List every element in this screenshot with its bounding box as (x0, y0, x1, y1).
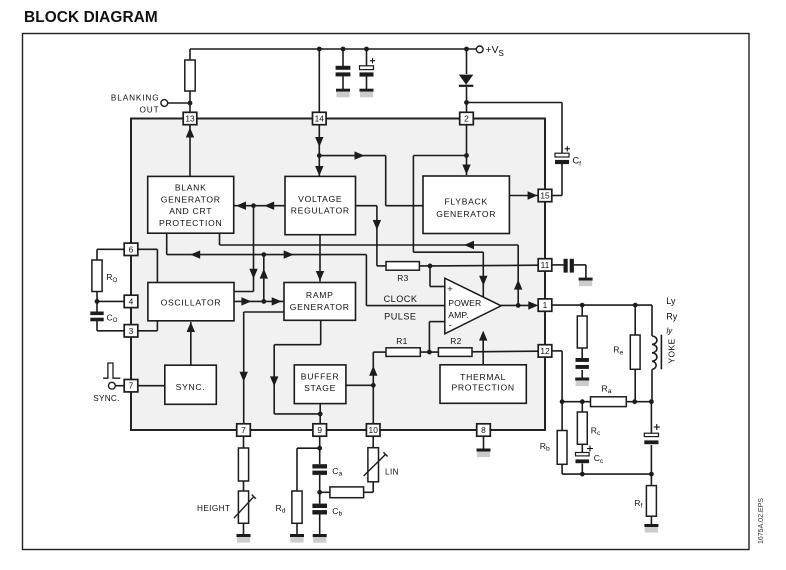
svg-text:6: 6 (129, 244, 134, 254)
arrow thermal into amp (479, 331, 487, 341)
svg-text:7: 7 (129, 381, 134, 391)
wire damper branch (581, 305, 583, 316)
wire oscillator output to ramp (234, 300, 284, 302)
wire pin 7 to sync block (138, 385, 165, 387)
capacitor supply C1 (336, 66, 351, 70)
pin 7 bottom (237, 424, 251, 436)
svg-text:STAGE: STAGE (304, 383, 336, 393)
svg-text:PROTECTION: PROTECTION (451, 382, 514, 392)
svg-text:R1: R1 (396, 336, 408, 346)
wire pin 6 to pin 3 link (138, 248, 158, 250)
arrow regulator rail right (355, 151, 365, 159)
node R3 junction (428, 264, 433, 269)
svg-text:Ry: Ry (666, 311, 677, 321)
svg-text:FLYBACK: FLYBACK (444, 196, 487, 206)
wire cap C1 stub (342, 49, 344, 66)
svg-text:YOKE: YOKE (667, 338, 677, 363)
arrow into blank generator 1 (236, 202, 246, 210)
yoke inductor Ly (652, 336, 657, 369)
wire cap to ground (574, 264, 586, 266)
svg-text:POWER: POWER (448, 298, 481, 308)
node Ro-Co junction (95, 299, 100, 304)
capacitor Co (90, 312, 103, 316)
wire blanking resistor bottom to pin 13 (189, 91, 191, 113)
node line B junction (261, 252, 266, 257)
block ramp generator (284, 283, 356, 321)
svg-text:7: 7 (241, 425, 246, 435)
wire Cf to pin 15 (561, 164, 563, 196)
resistor Rc (577, 412, 587, 444)
arrow into oscillator top (249, 269, 257, 279)
svg-text:R2: R2 (450, 336, 462, 346)
block flyback generator (423, 176, 509, 234)
svg-text:R3: R3 (397, 273, 409, 283)
node pin14 internal junction (317, 153, 322, 158)
pin 8 (477, 424, 491, 436)
pin 11 (538, 259, 552, 271)
node Rc top junction (580, 399, 585, 404)
svg-text:LIN: LIN (385, 468, 399, 477)
ground Cb (313, 534, 327, 537)
svg-text:8: 8 (481, 425, 486, 435)
arrow line A left (464, 241, 474, 249)
ground Rf (644, 524, 658, 527)
wire flyback to pin 15 (509, 195, 538, 197)
ground C1 (336, 89, 350, 92)
pin 3 (124, 325, 138, 337)
wire junction to pin 4 (97, 300, 125, 302)
node buffer right junction (371, 383, 376, 388)
svg-text:10: 10 (369, 425, 379, 435)
resistor Rd (292, 491, 302, 523)
resistor Rb (557, 431, 567, 465)
wire ramp left to bottom pin 7 (244, 311, 284, 313)
block blank generator (148, 176, 234, 233)
wire pin 12 to Rb (552, 350, 563, 352)
arrow into ramp generator top (316, 271, 324, 281)
resistor Rf (646, 486, 656, 517)
arrow down to R3 (373, 220, 381, 230)
capacitor coupling electrolytic (644, 433, 658, 436)
wire regulator to blank generator (234, 205, 285, 207)
wire R3 node to + input (419, 265, 430, 267)
resistor damper (577, 316, 587, 348)
node damper junction (580, 303, 585, 308)
svg-text:THERMAL: THERMAL (460, 372, 506, 382)
pin 2 (460, 112, 474, 124)
pin 4 (124, 295, 138, 307)
wire regulator to R3 (356, 205, 377, 207)
resistor Ro (92, 260, 102, 292)
arrow line B right (284, 250, 294, 258)
wire Ra rail (562, 401, 651, 403)
pin 7 sync (124, 380, 138, 392)
svg-text:OUT: OUT (140, 106, 160, 115)
arrow buffer to R1 (369, 366, 377, 376)
svg-text:13: 13 (185, 114, 195, 124)
node diode-Cf junction (464, 100, 469, 105)
node R1-R2 junction (427, 350, 432, 355)
wire amp output to pin 1 (501, 304, 529, 306)
capacitor Cb (312, 504, 327, 508)
svg-text:-: - (449, 320, 452, 331)
node blanking junction (188, 101, 193, 106)
svg-text:GENERATOR: GENERATOR (290, 302, 350, 312)
wire pin2 junction to crossover (413, 155, 466, 157)
svg-text:REGULATOR: REGULATOR (291, 206, 350, 216)
node oscillator output junction (261, 299, 266, 304)
svg-text:PROTECTION: PROTECTION (159, 218, 222, 228)
wire crossover vertical (412, 156, 414, 253)
terminal sync input (109, 382, 116, 389)
wire yoke branch bottom (651, 369, 653, 401)
wire Ro to pin 4 node (96, 292, 98, 312)
svg-text:HEIGHT: HEIGHT (197, 504, 230, 513)
pin 13 (183, 112, 197, 124)
node rail junction C1 (341, 47, 346, 52)
block sync (165, 365, 217, 404)
node rail junction diode (464, 47, 469, 52)
arrow into blank generator 2 (264, 202, 274, 210)
arrow into pin 15 (528, 191, 538, 199)
arrow sync into oscillator (187, 322, 195, 332)
arrow down to bottom pin 7 (240, 372, 248, 382)
wire pin 9 branch (319, 436, 321, 464)
block voltage regulator (285, 176, 356, 234)
wire buffer to pin 9 (319, 404, 321, 424)
node pin2 internal junction (464, 153, 469, 158)
node rail junction pin14 (317, 47, 322, 52)
pin 10 (366, 424, 380, 436)
arrow into pin 1 (528, 301, 538, 309)
wire ramp to pin 9 node (320, 321, 322, 345)
svg-text:BLOCK DIAGRAM: BLOCK DIAGRAM (24, 9, 158, 26)
svg-text:AND CRT: AND CRT (169, 206, 212, 216)
wire pin 9 to Rd (297, 447, 320, 449)
svg-text:14: 14 (315, 114, 325, 124)
wire diode branch (466, 49, 468, 74)
svg-text:GENERATOR: GENERATOR (161, 194, 221, 204)
wire pin 14 into voltage regulator (318, 124, 320, 176)
node rail junction C2 (364, 47, 369, 52)
potentiometer HEIGHT (238, 491, 248, 523)
pin 15 (538, 189, 552, 201)
svg-text:VOLTAGE: VOLTAGE (298, 194, 342, 204)
arrow into flyback top (462, 165, 470, 175)
wire flyback feedback line A (219, 233, 221, 245)
pin 9 (313, 424, 327, 436)
block thermal protection (440, 365, 526, 404)
node Re bottom junction (632, 399, 637, 404)
svg-text:12: 12 (540, 346, 550, 356)
arrow down pin 14 line (315, 137, 323, 147)
capacitor supply C2 electrolytic (360, 66, 374, 70)
svg-text:BLANKING: BLANKING (111, 94, 160, 103)
svg-text:+: + (447, 284, 453, 295)
wire oscillator output up to line B (263, 255, 265, 302)
svg-text:OSCILLATOR: OSCILLATOR (161, 297, 222, 307)
wire cap C2 stub (366, 49, 368, 66)
arrow into pin 13 (186, 128, 194, 138)
node Cc bottom junction (580, 472, 585, 477)
pin 6 (124, 243, 138, 255)
wire blanking resistor top (189, 49, 191, 60)
wire pin 8 ground stub (483, 436, 485, 449)
wire R1 to R2 (420, 351, 438, 353)
pin 14 (313, 112, 327, 124)
node buffer output junction (318, 412, 323, 417)
svg-text:9: 9 (317, 425, 322, 435)
ground Rd (290, 534, 304, 537)
svg-text:PULSE: PULSE (384, 312, 416, 322)
svg-text:2: 2 (464, 114, 469, 124)
svg-text:3: 3 (129, 326, 134, 336)
capacitor Ca (312, 464, 327, 468)
wire yoke branch top (651, 305, 653, 336)
wire blank generator to pin 13 (189, 124, 191, 176)
arrow oscillator out 1 (241, 297, 251, 305)
wire Co to pin 3 (96, 321, 98, 331)
wire oscillator line B (166, 233, 168, 254)
svg-text:1: 1 (543, 300, 548, 310)
wire Re branch (634, 305, 636, 335)
wire junction to - input (428, 322, 430, 353)
wire R3 node to pin 11 (430, 264, 538, 267)
capacitor Cf (555, 153, 569, 157)
svg-text:CLOCK: CLOCK (384, 294, 418, 304)
wire R2 to pin 12 (472, 350, 538, 353)
arrow up output feedback (514, 280, 522, 290)
block buffer stage (294, 365, 346, 404)
wire coupling cap branch (650, 402, 652, 434)
ground C2 (360, 89, 374, 92)
svg-text:RAMP: RAMP (306, 290, 334, 300)
node Rf top junction (649, 472, 654, 477)
arrow oscillator out 2 (272, 297, 282, 305)
wire pin2 node to Cf (467, 102, 563, 104)
wire pin 6 to Ro (97, 248, 125, 250)
wire pin 11 to cap (552, 264, 564, 266)
node output junction (516, 303, 521, 308)
ground height pot (237, 534, 251, 537)
terminal +Vs (476, 46, 483, 53)
ground pin 8 (477, 449, 491, 452)
svg-text:BLANK: BLANK (175, 183, 207, 193)
wire pin 10 to lin pot (372, 436, 374, 448)
resistor R2 (438, 348, 472, 357)
wire Rb to bottom rail (561, 464, 563, 474)
wire regulator to ramp generator (319, 235, 321, 282)
wire Rc branch (581, 402, 583, 412)
diode D1 (459, 75, 473, 85)
wire pin 1 output rail (552, 304, 653, 306)
svg-text:11: 11 (541, 260, 550, 270)
node regulator-blank junction (251, 203, 256, 208)
wire pin 2 into flyback generator (466, 124, 468, 175)
sync pulse symbol (103, 363, 120, 378)
wire Ca to Cb node (319, 475, 321, 504)
wire +Vs top rail (190, 48, 477, 50)
arrow into voltage regulator (315, 166, 323, 176)
resistor Re (630, 335, 640, 369)
wire blanking out terminal (167, 102, 190, 104)
IC body (shaded block) (131, 119, 545, 431)
svg-text:15: 15 (540, 191, 550, 201)
ground pin 11 cap (579, 278, 593, 281)
resistor blanking (pin13 pull-up) (185, 60, 195, 91)
svg-text:4: 4 (129, 296, 134, 306)
arrow line B left (190, 250, 200, 258)
resistor Ra (591, 397, 627, 407)
svg-text:SYNC.: SYNC. (176, 382, 206, 392)
resistor R3 (386, 262, 419, 271)
node yoke bottom junction (649, 399, 654, 404)
wire lin resistor to pot (364, 491, 374, 493)
node Ca-Cb junction (317, 490, 322, 495)
wire junction down to oscillator (253, 206, 255, 292)
arrow ramp to buffer path (270, 376, 278, 386)
svg-text:GENERATOR: GENERATOR (436, 209, 496, 219)
ground damper (575, 378, 589, 381)
capacitor series pin 11 (564, 259, 568, 273)
resistor R1 (386, 348, 420, 357)
wire thermal protection to amp (482, 339, 484, 365)
wire pin 7 height branch (243, 436, 245, 448)
capacitor Cc (576, 453, 590, 456)
resistor lin series (330, 487, 364, 498)
potentiometer LIN (368, 448, 379, 482)
arrow flyback feed into amp (479, 276, 487, 286)
capacitor damper (576, 358, 589, 362)
op-amp power amplifier (445, 278, 501, 334)
wire sync terminal to pin 7 (115, 385, 125, 387)
resistor height fixed (238, 448, 248, 481)
node pin 9 junction (317, 446, 322, 451)
wire buffer to R1 and pin 10 (346, 384, 373, 386)
svg-text:SYNC.: SYNC. (93, 394, 120, 403)
wire Rf branch (650, 474, 652, 486)
wire clock pulse line (366, 305, 444, 307)
wire regulator rail to flyback (319, 155, 385, 157)
svg-text:1675A.02.EPS: 1675A.02.EPS (758, 498, 765, 544)
wire pin 14 supply stub (318, 49, 320, 113)
wire node to lin resistor (320, 491, 330, 493)
block oscillator (148, 283, 234, 321)
node Re junction (633, 303, 638, 308)
pin 1 (538, 299, 552, 311)
wire Cb to ground (319, 515, 321, 535)
svg-text:BUFFER: BUFFER (301, 372, 340, 382)
svg-text:AMP.: AMP. (448, 310, 469, 320)
pin 12 (538, 345, 552, 357)
wire sync to oscillator (190, 322, 192, 365)
svg-text:Ly: Ly (666, 296, 676, 306)
terminal blanking out (161, 100, 168, 107)
arrow up to line B (260, 269, 268, 279)
node pin12 rail junction (560, 399, 565, 404)
